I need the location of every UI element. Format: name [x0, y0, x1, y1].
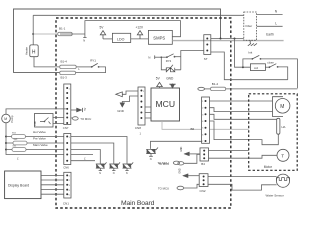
- wire CN6 to triac1: [71, 150, 101, 164]
- main board dashed border: [56, 18, 231, 208]
- wire CN8 to MCU: [145, 107, 151, 118]
- pin numbers B6: [202, 101, 203, 143]
- fuse B1-2: [211, 87, 298, 90]
- svg-text:coil: coil: [254, 66, 258, 70]
- wire CN2 TO MCU: [158, 184, 199, 190]
- ground arrow GND: [117, 103, 125, 113]
- node lock feed junction: [234, 38, 236, 40]
- connector CN1: [63, 172, 71, 205]
- svg-text:5V: 5V: [85, 107, 87, 110]
- relay RY1: [76, 59, 106, 73]
- connector ST: [204, 35, 211, 61]
- svg-text:close: close: [267, 60, 274, 64]
- display board: [5, 171, 41, 199]
- wire B1-1 to SMPS loop: [85, 21, 181, 37]
- water sensor: [270, 174, 290, 187]
- wire outer mains loop (top/left/bottom): [14, 9, 221, 72]
- wire earth gray rail: [172, 40, 283, 42]
- wire CN6 to triac3: [71, 137, 127, 164]
- svg-text:3: 3: [202, 114, 203, 116]
- wire CN2 pin3 to water sensor return: [208, 184, 270, 190]
- motor M: [273, 97, 290, 117]
- svg-text:RY2: RY2: [166, 59, 172, 63]
- triac box pump driver: [35, 114, 54, 128]
- svg-text:TO MCU: TO MCU: [158, 187, 169, 191]
- svg-text:L: L: [275, 22, 277, 26]
- svg-text:M: M: [4, 117, 7, 121]
- wire heater drop: [32, 15, 34, 45]
- wire B6 pin7 to heater triac: [151, 141, 202, 149]
- tacho T: [277, 149, 289, 161]
- svg-text:2: 2: [202, 108, 203, 110]
- fuse B1-1: [58, 32, 85, 35]
- wire mains N out: [257, 14, 283, 16]
- svg-text:Display Board: Display Board: [8, 183, 29, 187]
- filter box: [244, 12, 257, 40]
- diode to 5V sense: [71, 107, 87, 112]
- wire B6 pin2 to motor: [210, 108, 273, 112]
- svg-text:1: 1: [143, 91, 144, 93]
- wire B6 pin3 to HL top: [210, 114, 277, 119]
- motor dashed box: [249, 94, 298, 171]
- node ST junction: [220, 38, 222, 40]
- svg-text:1: 1: [202, 101, 203, 103]
- svg-text:GND: GND: [117, 109, 125, 113]
- wire N rail: [33, 14, 244, 16]
- pump motor: [2, 114, 11, 123]
- arrow out left: [116, 92, 123, 97]
- fuse B1-4: [60, 65, 92, 68]
- svg-text:Pre Valve: Pre Valve: [33, 137, 46, 141]
- svg-text:Earth: Earth: [266, 33, 274, 37]
- svg-text:MCU: MCU: [156, 99, 176, 109]
- svg-text:6: 6: [202, 134, 203, 136]
- ground arrow B4: [181, 146, 200, 156]
- power flag 5V MCU: [156, 76, 163, 88]
- fuse B1-3: [60, 71, 76, 74]
- triac valve1: [96, 162, 107, 175]
- wire B6 pin1 to motor: [210, 100, 273, 102]
- svg-text:LDO: LDO: [117, 37, 125, 41]
- wire B4 TO MCU: [158, 154, 200, 165]
- node coil junction: [242, 66, 244, 68]
- wire B4 pin1: [209, 150, 249, 152]
- valve coil SV3: [6, 145, 64, 151]
- wire CN7 TO MCU: [71, 117, 91, 121]
- wire display to CN1: [41, 175, 64, 194]
- wire L drop to door lock: [235, 39, 251, 68]
- terminal B1-2: [198, 87, 211, 90]
- triac valve3: [123, 162, 134, 175]
- svg-text:TO MCU: TO MCU: [80, 117, 91, 121]
- triac RY2 parallel: [161, 51, 204, 72]
- power flag +12V: [136, 26, 144, 39]
- wire CN2 pin1 to water sensor: [208, 176, 277, 178]
- wire ST pin1 to filter L: [211, 38, 244, 40]
- svg-text:Heater: Heater: [25, 47, 29, 55]
- ground under filter: [248, 40, 257, 46]
- svg-text:Water Sensor: Water Sensor: [266, 193, 284, 197]
- wire CN8 pin2 gnd: [122, 96, 138, 103]
- svg-text:B6: B6: [191, 127, 195, 131]
- door lock coil box: [250, 64, 265, 71]
- svg-text:Main Valve: Main Valve: [33, 143, 48, 147]
- svg-text:+12V: +12V: [136, 26, 144, 30]
- wire B6 pin4 to HL bottom: [210, 121, 279, 145]
- ground flag GND MCU: [166, 76, 176, 88]
- svg-text:5: 5: [202, 128, 203, 130]
- svg-text:Pump: Pump: [10, 115, 14, 123]
- connector CN8: [135, 87, 145, 136]
- svg-text:M: M: [280, 104, 284, 110]
- svg-text:SMPS: SMPS: [153, 36, 165, 41]
- heater H: [30, 45, 38, 57]
- svg-text:RY1: RY1: [90, 59, 96, 63]
- svg-text:7: 7: [202, 141, 203, 143]
- svg-text:B1-2: B1-2: [212, 82, 219, 86]
- wire CN8 pin1 out: [122, 91, 138, 94]
- wire triacbox outputs: [53, 118, 64, 124]
- switch close: [265, 60, 287, 79]
- svg-text:CN7: CN7: [63, 126, 69, 130]
- svg-text:CN2: CN2: [200, 189, 206, 193]
- svg-text:B1-4: B1-4: [61, 60, 68, 64]
- svg-text:CN6: CN6: [63, 166, 69, 170]
- connector B4: [200, 148, 209, 166]
- svg-text:GND: GND: [166, 76, 174, 80]
- wire heater bottom to B1-4: [34, 57, 60, 67]
- switch Ink (door lock): [243, 51, 298, 89]
- wire CN6 L' stub: [71, 155, 95, 161]
- svg-text:GND: GND: [181, 146, 183, 151]
- svg-text:N: N: [148, 56, 150, 60]
- relay RY2 cluster: [148, 54, 181, 63]
- power supply SMPS: [148, 30, 172, 44]
- capacitor stub N: [83, 34, 86, 43]
- svg-text:B1-1: B1-1: [59, 26, 66, 30]
- svg-text:H: H: [32, 49, 36, 55]
- wire CN6 to triac2: [71, 143, 114, 164]
- wire MCU gray row: [162, 121, 202, 129]
- node valve joints: [5, 136, 7, 138]
- svg-text:CN1: CN1: [63, 201, 69, 205]
- svg-text:N: N: [113, 172, 115, 175]
- triac heater driver: [146, 148, 158, 162]
- wire ST pin3 to lock return: [211, 52, 288, 80]
- svg-text:N: N: [83, 39, 85, 43]
- svg-text:Filter: Filter: [246, 24, 253, 28]
- regulator LDO: [112, 33, 130, 42]
- ground arrow CN2: [180, 168, 200, 178]
- valve coil SV2: [6, 139, 64, 145]
- resistor H/L: [277, 118, 287, 134]
- wire mains L out: [257, 25, 283, 27]
- wire 5V to LDO: [103, 38, 112, 40]
- wire LDO to SMPS: [131, 38, 149, 40]
- svg-text:Main Board: Main Board: [121, 200, 155, 207]
- svg-text:N: N: [126, 172, 128, 175]
- connector B6: [202, 97, 210, 143]
- MCU U1: [151, 88, 180, 121]
- svg-text:ST: ST: [204, 57, 208, 61]
- connector CN6 valves: [63, 134, 71, 170]
- svg-text:Motor: Motor: [264, 165, 273, 169]
- svg-text:GND: GND: [180, 168, 182, 173]
- power flag 5V: [100, 26, 106, 39]
- svg-text:1: 1: [69, 137, 70, 139]
- svg-text:N: N: [99, 172, 101, 175]
- svg-text:CN5: CN5: [35, 120, 37, 125]
- wire pump top row: [6, 109, 66, 114]
- svg-text:CN8: CN8: [135, 126, 141, 130]
- valve coil SV1: [6, 132, 64, 138]
- svg-text:Ink: Ink: [248, 51, 253, 55]
- svg-text:B1-3: B1-3: [61, 76, 68, 80]
- svg-text:4: 4: [202, 121, 203, 123]
- node heater/B1-1 junction: [32, 33, 34, 35]
- svg-text:1: 1: [69, 88, 70, 90]
- triac valve2: [109, 162, 120, 175]
- svg-text:B4: B4: [201, 162, 205, 166]
- connector CN2: [199, 174, 208, 193]
- svg-text:N: N: [150, 157, 152, 161]
- svg-text:H/L: H/L: [282, 125, 287, 129]
- connector CN7: [63, 84, 71, 130]
- svg-text:Hot Valve: Hot Valve: [33, 130, 46, 134]
- wire B1-1 gray tap: [33, 33, 58, 35]
- svg-text:T: T: [281, 153, 284, 158]
- label TO MCU heater: [158, 161, 180, 165]
- svg-text:TO MCU: TO MCU: [158, 162, 169, 166]
- wire pump bottom common: [6, 123, 64, 155]
